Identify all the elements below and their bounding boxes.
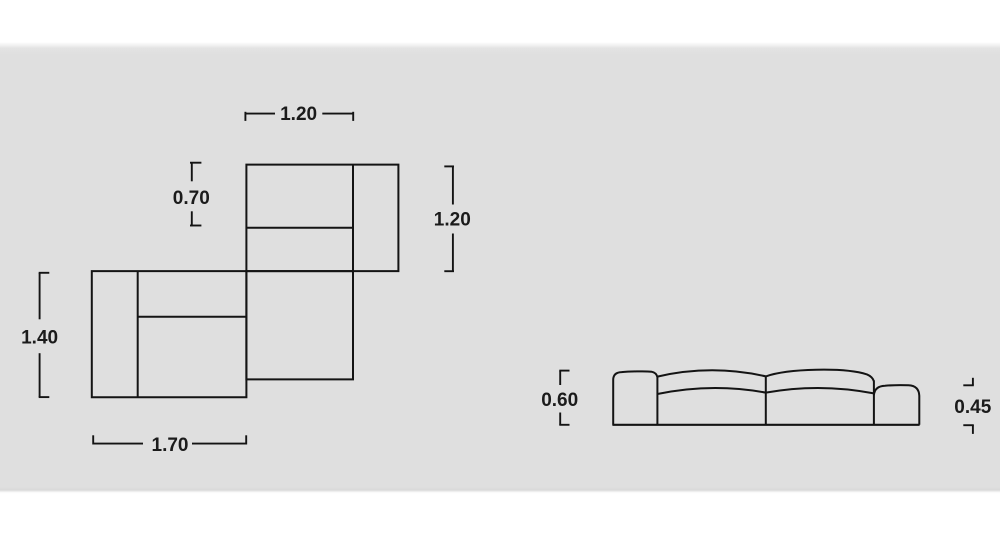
label 1.20 right bbox=[434, 210, 471, 231]
middle seat module outline bbox=[246, 271, 353, 379]
label 0.45 bbox=[954, 397, 991, 418]
dimension 1.20 (top width) bbox=[245, 112, 353, 121]
front view: seat 2 backrest top curve bbox=[766, 370, 874, 382]
svg-text:1.40: 1.40 bbox=[21, 328, 58, 349]
front view: divider left armrest / seat 1 bbox=[656, 376, 658, 425]
svg-text:1.20: 1.20 bbox=[280, 104, 317, 125]
chaise module backrest divider bbox=[246, 227, 353, 229]
left module armrest divider bbox=[137, 271, 139, 397]
svg-text:0.60: 0.60 bbox=[541, 390, 578, 411]
front view: divider seat 2 / right armrest bbox=[873, 381, 875, 425]
dimension 0.70 (chaise depth) bbox=[190, 163, 201, 227]
front view: seat 1 backrest top curve bbox=[657, 370, 765, 376]
svg-text:1.70: 1.70 bbox=[152, 435, 189, 456]
dimension 1.20 (right height) bbox=[444, 166, 454, 271]
label 0.70 bbox=[173, 188, 210, 209]
left module backrest divider bbox=[138, 316, 247, 318]
label 1.20 top bbox=[280, 104, 317, 125]
front view: seat 2 seam curve bbox=[766, 388, 874, 393]
label 1.70 bbox=[152, 435, 189, 456]
front view: divider seat 1 / seat 2 bbox=[765, 376, 767, 425]
dimension 1.40 (left height) bbox=[39, 273, 50, 397]
svg-text:1.20: 1.20 bbox=[434, 210, 471, 231]
front view: left armrest outline bbox=[613, 371, 657, 424]
left module outline bbox=[92, 271, 247, 397]
chaise module armrest divider bbox=[352, 165, 354, 272]
svg-text:0.70: 0.70 bbox=[173, 188, 210, 209]
label 1.40 bbox=[21, 328, 58, 349]
dimension 1.70 (bottom width) bbox=[93, 435, 246, 444]
dimension 0.45 (armrest height) bbox=[963, 378, 974, 434]
dimension 0.60 (backrest height) bbox=[559, 371, 569, 425]
sofa front view: floor line bbox=[612, 424, 919, 426]
sofa top view: chaise module outline bbox=[246, 165, 398, 272]
label 0.60 bbox=[541, 390, 578, 411]
front view: right armrest outline bbox=[874, 385, 919, 425]
svg-text:0.45: 0.45 bbox=[954, 397, 991, 418]
front view: seat 1 seam curve bbox=[657, 388, 765, 394]
